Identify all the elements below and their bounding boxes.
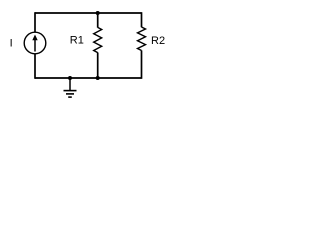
current source I <box>24 32 46 54</box>
ground <box>64 78 77 97</box>
wire R1 branch lower segment <box>97 53 99 79</box>
wire left branch lower segment <box>34 54 36 79</box>
wire top net: source top to R2 top <box>35 12 142 14</box>
svg-text:R2: R2 <box>151 35 165 47</box>
wire R2 branch lower segment <box>141 50 143 78</box>
wire R1 branch upper segment <box>97 12 99 27</box>
junction dot at ground node <box>68 76 72 80</box>
wire R2 branch upper segment <box>141 12 143 27</box>
svg-text:I: I <box>10 37 13 49</box>
svg-text:R1: R1 <box>70 35 84 47</box>
resistor R2 <box>138 27 146 51</box>
junction dot at R1 bottom node <box>96 76 100 80</box>
junction dot at R1 top node <box>96 11 100 15</box>
wire left branch upper segment <box>34 12 36 32</box>
resistor R1 <box>94 27 102 52</box>
wire bottom net: source bottom to R2 bottom <box>35 77 142 79</box>
